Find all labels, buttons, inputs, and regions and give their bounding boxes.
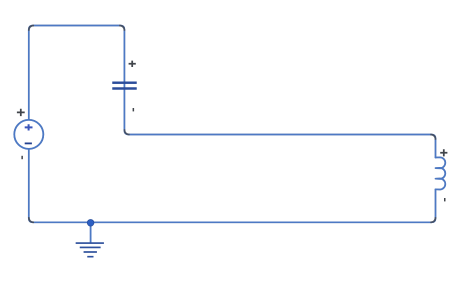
wire corner bottom-left xyxy=(29,217,34,222)
wire: left vertical top (source top to top-left corner) xyxy=(28,30,30,120)
label: source - xyxy=(21,156,23,159)
wire corner above capacitor xyxy=(119,26,124,31)
voltage source V1 xyxy=(14,120,43,149)
inductor L1 xyxy=(436,157,446,189)
wire: ground stub xyxy=(90,223,92,243)
wire: top horizontal xyxy=(29,26,436,158)
label: inductor + xyxy=(440,149,447,156)
label: source + xyxy=(17,109,25,116)
label: capacitor + xyxy=(129,61,136,67)
node: junction dot xyxy=(87,220,94,227)
ground xyxy=(76,242,104,257)
wire: right vertical bottom + bottom horizontal + left vertical bottom xyxy=(29,149,436,222)
wire corner top-left xyxy=(29,26,34,31)
plus inside source xyxy=(25,124,33,130)
label: inductor - xyxy=(444,198,446,201)
capacitor C1 xyxy=(112,82,136,90)
wire corner top-right xyxy=(430,135,435,140)
wire xyxy=(29,26,446,223)
minus inside source xyxy=(25,143,32,145)
wire corner below capacitor xyxy=(124,129,129,134)
label: capacitor - xyxy=(133,108,135,111)
wire corner bottom-right xyxy=(430,217,435,222)
corner shading xyxy=(29,26,436,223)
